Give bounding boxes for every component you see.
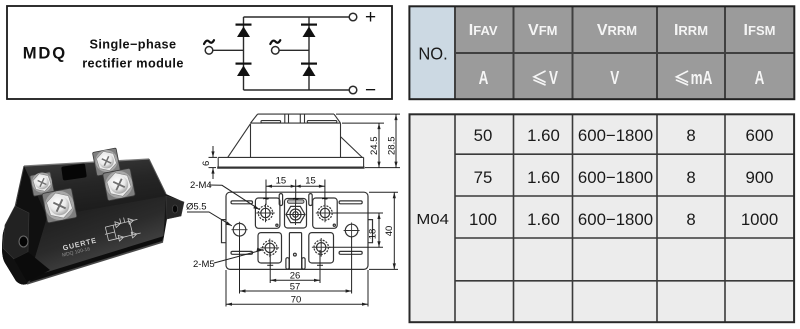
svg-text:NO.: NO. xyxy=(418,44,447,63)
svg-text:57: 57 xyxy=(290,281,301,292)
svg-text:mA: mA xyxy=(691,68,713,89)
svg-text:Single−phase: Single−phase xyxy=(90,38,177,52)
svg-text:18: 18 xyxy=(367,229,378,240)
svg-text:26: 26 xyxy=(290,271,301,282)
svg-text:M04: M04 xyxy=(416,212,449,228)
svg-text:1.60: 1.60 xyxy=(527,126,560,145)
svg-text:28.5: 28.5 xyxy=(387,137,398,156)
svg-text:VRRM: VRRM xyxy=(597,22,637,39)
svg-text:900: 900 xyxy=(746,168,774,187)
svg-text:600−1800: 600−1800 xyxy=(578,126,653,145)
svg-text:V: V xyxy=(549,68,558,89)
svg-text:6: 6 xyxy=(201,161,212,166)
svg-text:70: 70 xyxy=(291,295,302,306)
svg-text:1000: 1000 xyxy=(741,210,778,229)
svg-text:IFSM: IFSM xyxy=(744,22,776,39)
svg-text:VFM: VFM xyxy=(528,22,557,39)
svg-text:−: − xyxy=(365,80,376,101)
svg-text:100: 100 xyxy=(469,210,497,229)
svg-text:2-M5: 2-M5 xyxy=(193,259,215,270)
svg-text:24.5: 24.5 xyxy=(369,137,380,156)
svg-text:8: 8 xyxy=(686,126,695,145)
svg-text:+: + xyxy=(365,7,376,28)
svg-text:1.60: 1.60 xyxy=(527,210,560,229)
svg-text:IFAV: IFAV xyxy=(469,22,498,39)
svg-text:2-M4: 2-M4 xyxy=(190,180,212,191)
svg-text:8: 8 xyxy=(686,210,695,229)
svg-text:40: 40 xyxy=(384,226,395,237)
svg-text:V: V xyxy=(610,68,619,89)
svg-text:~: ~ xyxy=(263,194,270,206)
svg-text:IRRM: IRRM xyxy=(674,22,708,39)
svg-text:Ø5.5: Ø5.5 xyxy=(186,202,207,213)
svg-text:A: A xyxy=(479,68,489,89)
svg-text:1.60: 1.60 xyxy=(527,168,560,187)
svg-text:MDQ: MDQ xyxy=(23,44,67,63)
svg-text:~: ~ xyxy=(322,194,329,206)
svg-text:600−1800: 600−1800 xyxy=(578,210,653,229)
svg-text:600: 600 xyxy=(746,126,774,145)
svg-text:75: 75 xyxy=(474,168,493,187)
svg-text:A: A xyxy=(755,68,765,89)
svg-text:600−1800: 600−1800 xyxy=(578,168,653,187)
svg-text:15: 15 xyxy=(276,175,287,186)
svg-text:50: 50 xyxy=(474,126,493,145)
svg-text:~: ~ xyxy=(292,194,299,206)
svg-text:8: 8 xyxy=(686,168,695,187)
svg-text:15: 15 xyxy=(305,175,316,186)
svg-text:rectifier module: rectifier module xyxy=(82,57,184,71)
